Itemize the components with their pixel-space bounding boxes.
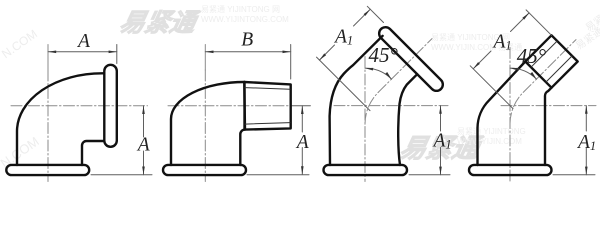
body F4 right inner profile	[545, 88, 552, 165]
centerline vertical F4	[509, 48, 511, 182]
svg-text:N.COM: N.COM	[0, 27, 40, 61]
svg-text:A1: A1	[333, 27, 353, 48]
dim B top F2	[205, 51, 290, 53]
svg-text:易紧通 YIJINTONG: 易紧通 YIJINTONG	[457, 126, 526, 136]
thread line 2 F4	[546, 56, 572, 82]
centerline vertical F3	[364, 57, 366, 182]
dim A right F1	[143, 106, 145, 175]
thread line 1 F4	[531, 41, 557, 67]
angle dim 45 F4	[510, 68, 537, 79]
band F3 top 45deg	[377, 25, 446, 94]
thread line bottom F2	[245, 123, 290, 125]
male thread end F4 (rotated square)	[525, 35, 577, 87]
dim A1 right F4	[585, 106, 587, 175]
body F3 right profile	[398, 74, 417, 165]
body F3 left profile	[330, 36, 383, 165]
dim A1 diagonal F3: ext line 1 through center	[317, 57, 371, 111]
centerline vertical F1	[47, 45, 49, 71]
centerline bend arc F4	[510, 92, 523, 123]
watermark top-center logo	[117, 4, 289, 37]
centerline vertical F2	[204, 45, 206, 71]
dim A1 diagonal F4: dim line with text gap	[473, 13, 529, 69]
dim A1 diagonal F4: face extension	[526, 10, 551, 35]
svg-text:易紧通 YIJINTONG 网: 易紧通 YIJINTONG 网	[201, 4, 280, 14]
dim A right F2	[301, 106, 303, 175]
centerline 45 axis F4	[523, 40, 576, 93]
svg-text:A: A	[136, 134, 150, 155]
centerline bend arc F3	[365, 92, 378, 124]
band F4 bottom	[469, 165, 552, 175]
svg-text:WWW.YIJIN.COM: WWW.YIJIN.COM	[457, 137, 522, 146]
svg-text:A: A	[76, 31, 90, 52]
body F2 outer profile	[171, 82, 244, 165]
band F2 bottom	[163, 165, 246, 175]
centerline horizontal F3 (A1 extension)	[334, 105, 448, 107]
watermark mid-right logo between fitting 3 and 4	[397, 126, 525, 163]
dim A1 right F3	[440, 106, 442, 175]
band F1 right	[104, 65, 117, 147]
band F3 bottom	[324, 165, 408, 175]
band F1 bottom	[6, 165, 89, 175]
body F1 inner corner	[82, 141, 104, 165]
body F2 inner corner	[240, 130, 245, 165]
angle dim 45 F3	[365, 68, 392, 79]
male thread end F2 outline	[244, 82, 290, 130]
dim A1 diagonal F3: dim line with text gap	[319, 9, 370, 60]
thread line top F2	[245, 88, 290, 90]
centerline 45 axis F3	[378, 39, 432, 93]
body F1 outer profile	[17, 73, 104, 165]
svg-text:WWW.YIJINTONG.COM: WWW.YIJINTONG.COM	[201, 15, 289, 24]
dim A top F1	[48, 51, 117, 53]
svg-text:B: B	[241, 29, 253, 50]
svg-text:45°: 45°	[369, 43, 399, 67]
male junction line F2	[243, 82, 245, 130]
centerline horizontal F1	[11, 105, 148, 107]
svg-text:易紧通: 易紧通	[117, 9, 202, 37]
svg-text:A1: A1	[576, 132, 596, 153]
watermark top-right	[431, 13, 600, 52]
svg-text:A: A	[295, 132, 309, 153]
body F4 left profile	[478, 62, 526, 166]
svg-text:45°: 45°	[517, 44, 547, 68]
dim A1 diagonal F3: face extension	[367, 6, 383, 22]
dim A1 diagonal F4: ext line 1 through center	[470, 66, 513, 109]
centerline horizontal F4 (A1 extension)	[501, 105, 596, 107]
centerline horizontal F2	[168, 105, 291, 107]
